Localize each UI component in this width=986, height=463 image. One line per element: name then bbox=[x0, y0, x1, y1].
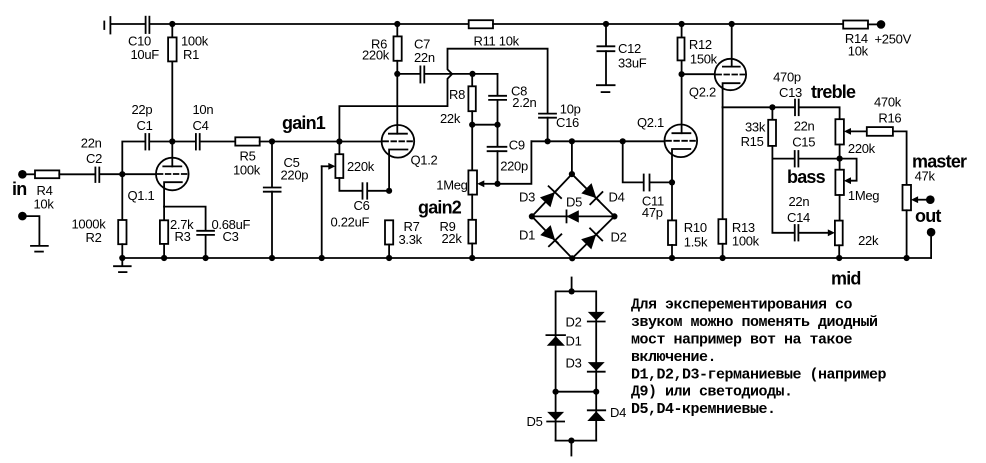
resistor R11 bbox=[469, 20, 520, 48]
svg-text:R11 10k: R11 10k bbox=[474, 33, 520, 48]
svg-text:C4: C4 bbox=[193, 118, 209, 133]
svg-text:Q2.1: Q2.1 bbox=[637, 115, 664, 130]
wire master wiper to out terminal bbox=[911, 196, 926, 203]
svg-text:220k: 220k bbox=[848, 141, 876, 156]
svg-text:220k: 220k bbox=[347, 159, 375, 174]
svg-text:1Meg: 1Meg bbox=[436, 177, 467, 192]
svg-text:D4: D4 bbox=[610, 405, 626, 420]
svg-text:gain1: gain1 bbox=[282, 113, 326, 133]
wire bass pot bottom to mid pot bbox=[839, 195, 841, 221]
wire alt network middle bbox=[556, 391, 597, 393]
node out terminal bbox=[915, 195, 941, 226]
svg-text:D3: D3 bbox=[519, 190, 535, 205]
node C11 branch junction bbox=[620, 138, 626, 144]
svg-text:D1: D1 bbox=[519, 228, 535, 243]
potentiometer 22k mid bbox=[835, 221, 879, 258]
tube triode Q1.2 bbox=[382, 74, 438, 191]
wire bass wiper arrowhead bbox=[844, 177, 851, 184]
resistor R3 bbox=[160, 207, 194, 258]
wire Q2.2 cathode to tone stack bbox=[723, 106, 794, 108]
svg-text:33k: 33k bbox=[745, 119, 766, 134]
svg-text:+250V: +250V bbox=[875, 32, 912, 47]
potentiometer 220k treble bbox=[835, 119, 875, 156]
diode D2 alt bbox=[566, 312, 605, 330]
node Q2.1 cathode junction bbox=[669, 179, 675, 185]
node input jack ground terminal bbox=[18, 212, 27, 221]
svg-text:Q1.1: Q1.1 bbox=[128, 188, 155, 203]
svg-text:R8: R8 bbox=[449, 87, 465, 102]
input cap plates at top-left of supply rail bbox=[104, 17, 110, 34]
diode D1 bbox=[539, 224, 564, 249]
node bridge top branch junction bbox=[569, 138, 575, 144]
svg-text:C2: C2 bbox=[86, 151, 102, 166]
svg-text:22k: 22k bbox=[858, 233, 879, 248]
svg-text:Q1.2: Q1.2 bbox=[411, 152, 438, 167]
capacitor C14 bbox=[787, 194, 810, 241]
svg-text:150k: 150k bbox=[690, 51, 718, 66]
node out ground terminal bbox=[927, 228, 936, 237]
wire treble pot bottom to node bbox=[839, 145, 841, 170]
capacitor C6 bbox=[331, 183, 370, 229]
svg-text:D1,D2,D3-германиевые (например: D1,D2,D3-германиевые (например bbox=[631, 366, 887, 383]
diode D5 alt bbox=[527, 412, 565, 429]
svg-text:R10: R10 bbox=[684, 220, 707, 235]
svg-text:D3: D3 bbox=[566, 356, 582, 371]
node C5 junction bbox=[269, 138, 275, 144]
diode D4 bbox=[580, 182, 605, 207]
node +250V terminal bbox=[875, 20, 912, 47]
node top rail junctions bbox=[169, 21, 735, 27]
diode D4 alt bbox=[587, 405, 626, 421]
node Q1.2 anode junction bbox=[394, 71, 400, 77]
capacitor C13 bbox=[773, 70, 802, 116]
capacitor C4 bbox=[193, 102, 214, 149]
svg-text:1.5k: 1.5k bbox=[684, 234, 708, 249]
tube triode Q1.1 bbox=[128, 142, 189, 207]
svg-text:C9: C9 bbox=[509, 138, 525, 153]
capacitor C8 bbox=[489, 74, 536, 125]
svg-text:мост например вот на такое: мост например вот на такое bbox=[631, 332, 853, 349]
svg-text:C15: C15 bbox=[792, 134, 815, 149]
diode bridge frame bbox=[532, 174, 615, 258]
svg-text:22k: 22k bbox=[440, 111, 461, 126]
svg-text:470k: 470k bbox=[874, 95, 902, 110]
wire input ground lead bbox=[26, 216, 39, 246]
svg-text:C6: C6 bbox=[354, 198, 370, 213]
svg-text:in: in bbox=[12, 179, 26, 199]
resistor R9 bbox=[440, 195, 477, 258]
wire alt network bottom bbox=[556, 440, 597, 442]
wire alt network frame bbox=[556, 291, 597, 440]
node alt middle right junction bbox=[593, 389, 599, 395]
svg-text:47p: 47p bbox=[642, 205, 663, 220]
svg-text:C14: C14 bbox=[787, 210, 810, 225]
capacitor C7 bbox=[414, 36, 435, 82]
diode D3 alt bbox=[566, 356, 605, 372]
wire feedback from Q1.2 grid node up bbox=[339, 49, 547, 142]
svg-text:Д9) или светодиоды.: Д9) или светодиоды. bbox=[631, 384, 793, 401]
node R12 bottom junction bbox=[679, 71, 685, 77]
wire out ground to bus bbox=[930, 236, 932, 259]
svg-text:33uF: 33uF bbox=[618, 55, 647, 70]
svg-text:220p: 220p bbox=[281, 167, 309, 182]
svg-text:D2: D2 bbox=[566, 315, 582, 330]
diode D5 bbox=[566, 194, 582, 222]
resistor R6 bbox=[362, 24, 402, 74]
diode D2 bbox=[580, 226, 605, 251]
potentiometer 47k master bbox=[903, 152, 968, 258]
node bridge right vertex bbox=[611, 213, 617, 219]
svg-text:220k: 220k bbox=[362, 48, 390, 63]
svg-text:mid: mid bbox=[831, 269, 861, 289]
resistor R13 bbox=[718, 219, 759, 258]
ground input jack bbox=[31, 246, 48, 252]
resistor R16 bbox=[867, 95, 902, 136]
wire R4 to C2 bbox=[59, 173, 94, 175]
wire R8 bottom to 1Meg pot top bbox=[471, 125, 473, 171]
wire R15 node down to C14 bbox=[772, 159, 793, 233]
svg-text:D2: D2 bbox=[611, 230, 627, 245]
resistor R12 bbox=[678, 24, 718, 74]
svg-text:22n: 22n bbox=[789, 194, 810, 209]
capacitor C10 bbox=[128, 17, 159, 62]
wire gain1 pot bottom to C6 bbox=[339, 178, 361, 191]
potentiometer 1Meg bass bbox=[835, 170, 879, 204]
capacitor C11 bbox=[642, 175, 672, 221]
capacitor C2 bbox=[81, 135, 102, 182]
wire R5 to Q1.2 grid bbox=[260, 141, 382, 143]
svg-text:22n: 22n bbox=[81, 135, 102, 150]
svg-text:out: out bbox=[915, 206, 941, 226]
potentiometer 1Meg gain2 bbox=[418, 170, 477, 217]
wire gain2 pot wiper from C9 bottom node bbox=[477, 180, 497, 187]
svg-text:Для эксперементирования со: Для эксперементирования со bbox=[631, 297, 853, 314]
svg-text:R15: R15 bbox=[741, 134, 764, 149]
svg-text:D4: D4 bbox=[609, 190, 625, 205]
svg-text:2.2n: 2.2n bbox=[512, 95, 536, 110]
svg-text:R5: R5 bbox=[240, 148, 256, 163]
wire Q2.1 grid line bbox=[531, 140, 664, 142]
node Q1.2 cathode junction bbox=[386, 188, 392, 194]
wire treble wiper to R16 bbox=[844, 128, 867, 135]
node C9 bottom junction bbox=[494, 181, 500, 187]
svg-text:C3: C3 bbox=[223, 229, 239, 244]
svg-text:22n: 22n bbox=[414, 50, 435, 65]
capacitor C15 bbox=[792, 118, 815, 166]
resistor R7 bbox=[385, 219, 423, 258]
node R15 top junction bbox=[769, 104, 775, 110]
wire cathode to C3 bbox=[164, 207, 206, 231]
node alt bottom junction bbox=[568, 438, 574, 444]
svg-text:R3: R3 bbox=[175, 229, 191, 244]
node ground bus junctions bbox=[119, 255, 910, 262]
wire C7 to R8 top node bbox=[425, 73, 497, 75]
node C8 bottom junction bbox=[494, 122, 500, 128]
node gain1 pot junction bbox=[336, 138, 342, 144]
wire C15 to bass node and wiper bbox=[799, 159, 856, 181]
capacitor C16 bbox=[539, 102, 581, 142]
node R8 bottom junction bbox=[469, 122, 475, 128]
svg-text:10k: 10k bbox=[848, 43, 869, 58]
svg-text:gain2: gain2 bbox=[418, 198, 462, 218]
wire R8 bottom to C8 bottom bbox=[472, 124, 497, 126]
node Q1.1 grid junction bbox=[119, 171, 125, 177]
svg-text:C16: C16 bbox=[556, 115, 579, 130]
resistor R5 bbox=[233, 137, 261, 177]
wire C13 to treble pot top bbox=[800, 107, 840, 119]
svg-text:220p: 220p bbox=[500, 158, 528, 173]
svg-text:470p: 470p bbox=[773, 70, 801, 85]
svg-text:R12: R12 bbox=[689, 37, 712, 52]
svg-text:47k: 47k bbox=[915, 169, 936, 184]
svg-text:bass: bass bbox=[787, 167, 826, 187]
svg-text:C13: C13 bbox=[779, 85, 802, 100]
resistor R1 bbox=[168, 24, 209, 142]
svg-text:звуком можно поменять диодный: звуком можно поменять диодный bbox=[631, 314, 878, 331]
resistor R10 bbox=[668, 220, 708, 258]
node alt network top junction bbox=[569, 288, 575, 294]
wire top rail left segment bbox=[110, 23, 144, 25]
wire C15 line bbox=[772, 158, 793, 160]
node R8 top junction bbox=[469, 71, 475, 77]
svg-text:10n: 10n bbox=[193, 102, 214, 117]
diode D1 alt bbox=[546, 334, 581, 349]
resistor R8 bbox=[440, 74, 476, 126]
svg-text:R2: R2 bbox=[86, 230, 102, 245]
potentiometer 220k gain1 bbox=[335, 142, 374, 179]
svg-text:100k: 100k bbox=[233, 162, 261, 177]
svg-text:C1: C1 bbox=[137, 118, 153, 133]
svg-text:Q2.2: Q2.2 bbox=[689, 85, 716, 100]
ground main bus bbox=[114, 258, 131, 272]
node bass pot top junction bbox=[837, 156, 843, 162]
svg-text:10uF: 10uF bbox=[131, 47, 160, 62]
wire top rail to R11 bbox=[150, 23, 468, 25]
tube triode Q2.2 bbox=[689, 24, 746, 107]
capacitor C9 bbox=[488, 125, 528, 184]
wire C11 branch bbox=[623, 141, 643, 182]
node Q1.1 anode junction bbox=[169, 138, 175, 144]
resistor R2 bbox=[72, 174, 127, 258]
svg-text:R1: R1 bbox=[183, 47, 199, 62]
svg-text:treble: treble bbox=[811, 82, 856, 102]
wire R14 to +250V terminal bbox=[868, 23, 877, 25]
svg-text:R16: R16 bbox=[878, 111, 901, 126]
ground C12 bbox=[597, 85, 615, 92]
wire alt network pigtail bottom bbox=[570, 441, 572, 456]
wire bridge top branch bbox=[571, 141, 573, 174]
diode D3 bbox=[539, 183, 564, 208]
capacitor C5 bbox=[264, 142, 308, 259]
svg-text:22n: 22n bbox=[794, 118, 815, 133]
wire ground bus bbox=[122, 257, 931, 259]
wire anode node to C7 bbox=[397, 73, 419, 75]
node bridge left vertex bbox=[529, 213, 535, 219]
wire R16 to master pot top bbox=[893, 131, 907, 185]
node C16 bottom junction bbox=[545, 138, 551, 144]
svg-text:1000k: 1000k bbox=[72, 216, 107, 231]
wire bridge middle bbox=[532, 215, 615, 217]
resistor R15 bbox=[741, 107, 776, 158]
node alt middle left junction bbox=[553, 389, 559, 395]
svg-text:10k: 10k bbox=[34, 196, 55, 211]
wire C1 to anode node bbox=[150, 141, 195, 143]
wire cathode down to R13 bbox=[722, 107, 724, 219]
svg-text:22p: 22p bbox=[132, 102, 153, 117]
capacitor C3 bbox=[197, 217, 250, 258]
wire C2 to Q1.1 grid bbox=[100, 173, 156, 175]
resistor R4 bbox=[26, 170, 59, 211]
wire C4 to R5 bbox=[201, 141, 236, 143]
wire alt network pigtail top bbox=[571, 278, 573, 292]
node bridge top vertex bbox=[569, 171, 575, 177]
wire C14 to mid wiper bbox=[799, 229, 835, 236]
svg-text:D5: D5 bbox=[566, 194, 582, 209]
wire gain1 pot wiper bbox=[322, 163, 336, 258]
svg-text:D5,D4-кремниевые.: D5,D4-кремниевые. bbox=[631, 401, 776, 418]
wire C6 to cathode node bbox=[368, 190, 389, 192]
wire C1 bypass riser bbox=[122, 142, 144, 175]
svg-text:1Meg: 1Meg bbox=[848, 188, 879, 203]
svg-text:D1: D1 bbox=[566, 334, 582, 349]
note Russian annotation text bbox=[631, 297, 887, 418]
svg-text:0.22uF: 0.22uF bbox=[331, 214, 370, 229]
capacitor C1 bbox=[132, 102, 153, 149]
svg-text:D5: D5 bbox=[527, 414, 543, 429]
capacitor C12 bbox=[597, 24, 646, 84]
wire C9 node to Q2.1 grid line bbox=[498, 141, 532, 184]
tube triode Q2.1 bbox=[637, 74, 697, 220]
wire R12 node to Q2.2 grid bbox=[682, 73, 715, 75]
svg-text:3.3k: 3.3k bbox=[399, 232, 423, 247]
resistor R14 bbox=[843, 21, 868, 59]
wire top rail to R14 bbox=[493, 23, 843, 25]
svg-text:включение.: включение. bbox=[631, 349, 716, 366]
svg-text:22k: 22k bbox=[442, 231, 463, 246]
svg-text:C12: C12 bbox=[618, 41, 641, 56]
svg-text:100k: 100k bbox=[732, 233, 760, 248]
node input jack signal terminal bbox=[12, 170, 27, 199]
